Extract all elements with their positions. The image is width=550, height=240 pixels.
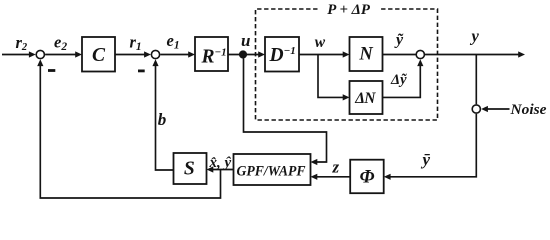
wire y output (425, 54, 520, 56)
block N (350, 37, 383, 71)
svg-text:N: N (358, 45, 373, 65)
noise injection circle (472, 105, 480, 113)
arrow into block Phi (384, 174, 391, 180)
wire u branch down to GPF/WAPF right side (244, 59, 327, 163)
arrow into block D-1 (258, 51, 265, 57)
svg-text:x̂, ŷ: x̂, ŷ (209, 155, 232, 171)
svg-text:Φ: Φ (360, 167, 375, 188)
arrow into block DeltaN (343, 94, 350, 100)
sum circle for ytilde outputs (416, 50, 424, 58)
block DeltaN (350, 81, 383, 114)
svg-text:GPF/WAPF: GPF/WAPF (237, 164, 306, 180)
arrow into summer2 from below (152, 59, 158, 66)
wire e1: summer2 to R-1 (160, 54, 189, 56)
arrow into block C (75, 51, 82, 57)
node u (filled dot) (239, 50, 247, 58)
svg-text:u: u (241, 31, 250, 50)
svg-text:C: C (92, 45, 106, 66)
wire u: R-1 to D-1 through node u (228, 54, 260, 56)
output arrow y (518, 51, 525, 57)
svg-text:Δỹ: Δỹ (390, 72, 407, 88)
svg-text:P + ΔP: P + ΔP (327, 2, 371, 18)
arrow into block S (207, 166, 214, 172)
wire outer feedback: junction down, left, up to summer1 (40, 64, 220, 198)
svg-text:ΔN: ΔN (354, 90, 376, 107)
wire xhat,yhat: GPF/WAPF to S (213, 169, 235, 171)
arrow into summer2 (144, 51, 151, 57)
wire noise circle down and left to Phi (390, 114, 477, 177)
wire w branch down to DeltaN (318, 55, 345, 98)
arrow into noise circle (481, 106, 488, 112)
svg-text:y: y (470, 27, 480, 46)
svg-text:w: w (315, 34, 326, 51)
summing junction circle 2 (151, 50, 159, 58)
block C (82, 37, 115, 72)
arrow into summer1 (29, 51, 36, 57)
svg-text:S: S (184, 159, 195, 180)
wire z: Phi to GPF/WAPF (317, 176, 350, 178)
wire N output to sum circle (383, 54, 416, 56)
svg-text:b: b (158, 110, 167, 129)
wire b: S to summer2 (156, 64, 174, 170)
arrow into block R-1 (188, 51, 195, 57)
arrow into GPF/WAPF from Phi (311, 174, 318, 180)
svg-text:ỹ: ỹ (394, 32, 404, 49)
wire DeltaN output up to sum circle (383, 64, 421, 97)
svg-text:ȳ: ȳ (421, 150, 431, 169)
arrow into GPF/WAPF right side (u branch) (311, 159, 318, 165)
wire y junction down to noise circle (475, 55, 477, 105)
block S (174, 153, 207, 184)
block GPF/WAPF (234, 154, 311, 185)
block D^-1 (265, 37, 299, 72)
wire w: D-1 to N (299, 54, 345, 56)
block R^-1 (195, 37, 228, 71)
minus sign at summer1 (48, 69, 55, 72)
wire r1: C to summer2 (115, 54, 146, 56)
arrow into sum circle from below (417, 59, 423, 66)
block Phi (350, 160, 384, 194)
dashed uncertainty box P+DeltaP (256, 9, 438, 120)
svg-text:Noise: Noise (509, 102, 547, 118)
summing junction circle 1 (36, 50, 44, 58)
arrow into summer1 from below (37, 59, 43, 66)
wire r2 input (2, 54, 30, 56)
wire noise label stub to noise circle (487, 108, 510, 110)
svg-text:z: z (332, 157, 340, 176)
wire e2: summer1 to C (45, 54, 76, 56)
minus sign at summer2 (138, 70, 145, 73)
arrow into block N (343, 51, 350, 57)
